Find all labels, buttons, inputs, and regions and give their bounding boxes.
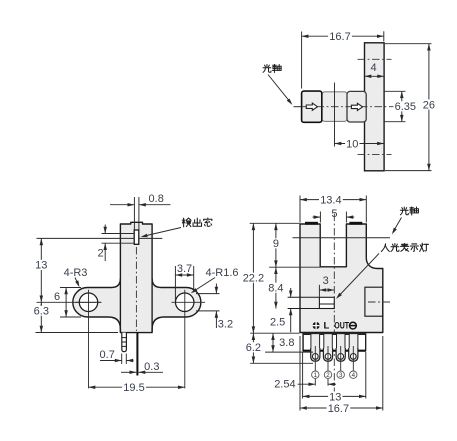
svg-text:2.54: 2.54 (274, 379, 295, 391)
svg-text:10: 10 (346, 138, 358, 150)
svg-text:13.4: 13.4 (320, 195, 341, 207)
svg-text:6: 6 (54, 291, 60, 303)
svg-text:0.7: 0.7 (100, 349, 115, 361)
svg-text:16.7: 16.7 (328, 403, 349, 415)
svg-text:OUT: OUT (334, 321, 349, 332)
svg-text:3.8: 3.8 (279, 337, 294, 349)
svg-text:2.5: 2.5 (270, 317, 285, 329)
svg-text:9: 9 (273, 238, 279, 250)
svg-text:13: 13 (329, 391, 341, 403)
svg-text:6.35: 6.35 (395, 101, 416, 113)
svg-text:2: 2 (326, 372, 330, 379)
svg-text:4: 4 (370, 62, 376, 74)
svg-text:3: 3 (339, 372, 343, 379)
svg-text:3.2: 3.2 (218, 319, 233, 331)
svg-text:19.5: 19.5 (123, 382, 144, 394)
svg-text:16.7: 16.7 (329, 31, 350, 43)
svg-text:26: 26 (423, 99, 435, 111)
svg-text:1: 1 (314, 372, 318, 379)
svg-text:3.7: 3.7 (177, 263, 192, 275)
svg-text:4-R1.6: 4-R1.6 (205, 267, 238, 279)
svg-text:8.4: 8.4 (268, 283, 283, 295)
svg-text:6.3: 6.3 (34, 306, 49, 318)
svg-text:13: 13 (35, 260, 47, 272)
svg-text:L: L (323, 321, 329, 332)
svg-text:5: 5 (331, 208, 337, 220)
svg-text:22.2: 22.2 (243, 273, 264, 285)
svg-text:0.8: 0.8 (149, 193, 164, 205)
svg-text:3: 3 (323, 275, 329, 287)
svg-text:4: 4 (352, 372, 356, 379)
svg-text:2: 2 (98, 248, 104, 260)
svg-text:6.2: 6.2 (246, 342, 261, 354)
svg-text:0.3: 0.3 (144, 361, 159, 373)
svg-text:4-R3: 4-R3 (64, 267, 88, 279)
